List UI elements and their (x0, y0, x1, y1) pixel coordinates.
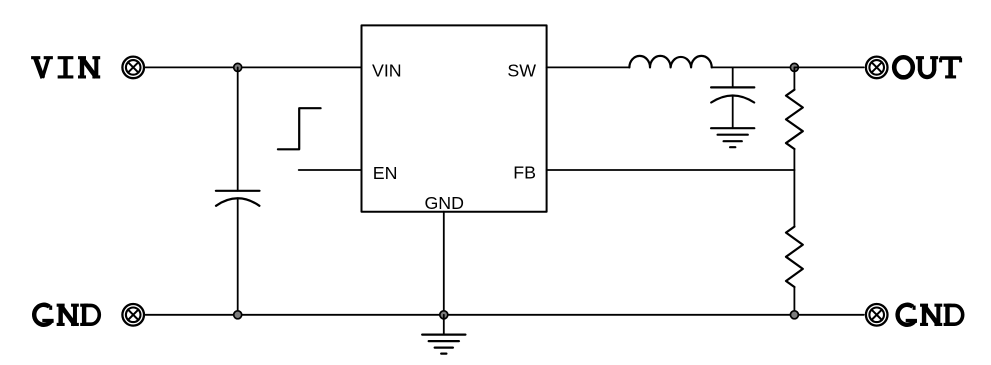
enable step signal symbol (278, 108, 321, 149)
wire C1 top lead (237, 67, 239, 190)
wire C2 top lead (732, 67, 734, 87)
capacitor C1 (input, polarized) (216, 191, 260, 206)
node A junction dot (VIN rail / C1 tap) (234, 63, 242, 71)
terminal GND right (866, 304, 888, 326)
node GND-right label (898, 305, 963, 325)
resistor R2 (lower divider) (786, 170, 803, 315)
terminal VIN (122, 57, 144, 79)
wire U1.SW to L1 (547, 66, 630, 68)
pin EN label (373, 163, 398, 183)
node GND-left label (34, 305, 99, 325)
wire OUT node to OUT terminal (794, 66, 863, 68)
svg-text:FB: FB (513, 163, 536, 183)
capacitor C2 (output, polarized) (711, 87, 754, 102)
terminal GND left (122, 304, 144, 326)
resistor R1 (upper divider) (786, 67, 803, 170)
wire EN input (299, 169, 362, 171)
IC U1 regulator box (362, 25, 547, 211)
wire FB from U1 to divider (547, 169, 795, 171)
wire ground rail (145, 314, 863, 316)
inductor L1 (629, 56, 711, 68)
wire U1.GND pin (443, 212, 445, 315)
svg-text:EN: EN (373, 163, 398, 183)
svg-text:GND: GND (424, 193, 464, 213)
node B junction dot (C1 bottom on rail) (234, 311, 242, 319)
wire C1 bottom lead (237, 198, 239, 314)
wire L1 to OUT node (712, 66, 795, 68)
ground (below C2) (711, 128, 754, 147)
wire C2 bottom lead (732, 96, 734, 128)
node C junction dot (U1 GND on rail) (440, 311, 448, 319)
svg-text:VIN: VIN (372, 60, 402, 80)
node OUT junction dot (790, 63, 798, 71)
node VIN label (31, 58, 100, 78)
node D junction dot (R2 bottom on rail) (790, 311, 798, 319)
pin FB label (513, 163, 536, 183)
pin GND label (424, 193, 464, 213)
wire VIN terminal to U1.VIN (145, 66, 361, 68)
terminal OUT (866, 57, 888, 79)
svg-text:SW: SW (507, 60, 536, 80)
node OUT label (894, 57, 961, 77)
pin VIN label (372, 60, 402, 80)
ground (main earth below rail) (422, 315, 465, 354)
pin SW label (507, 60, 536, 80)
